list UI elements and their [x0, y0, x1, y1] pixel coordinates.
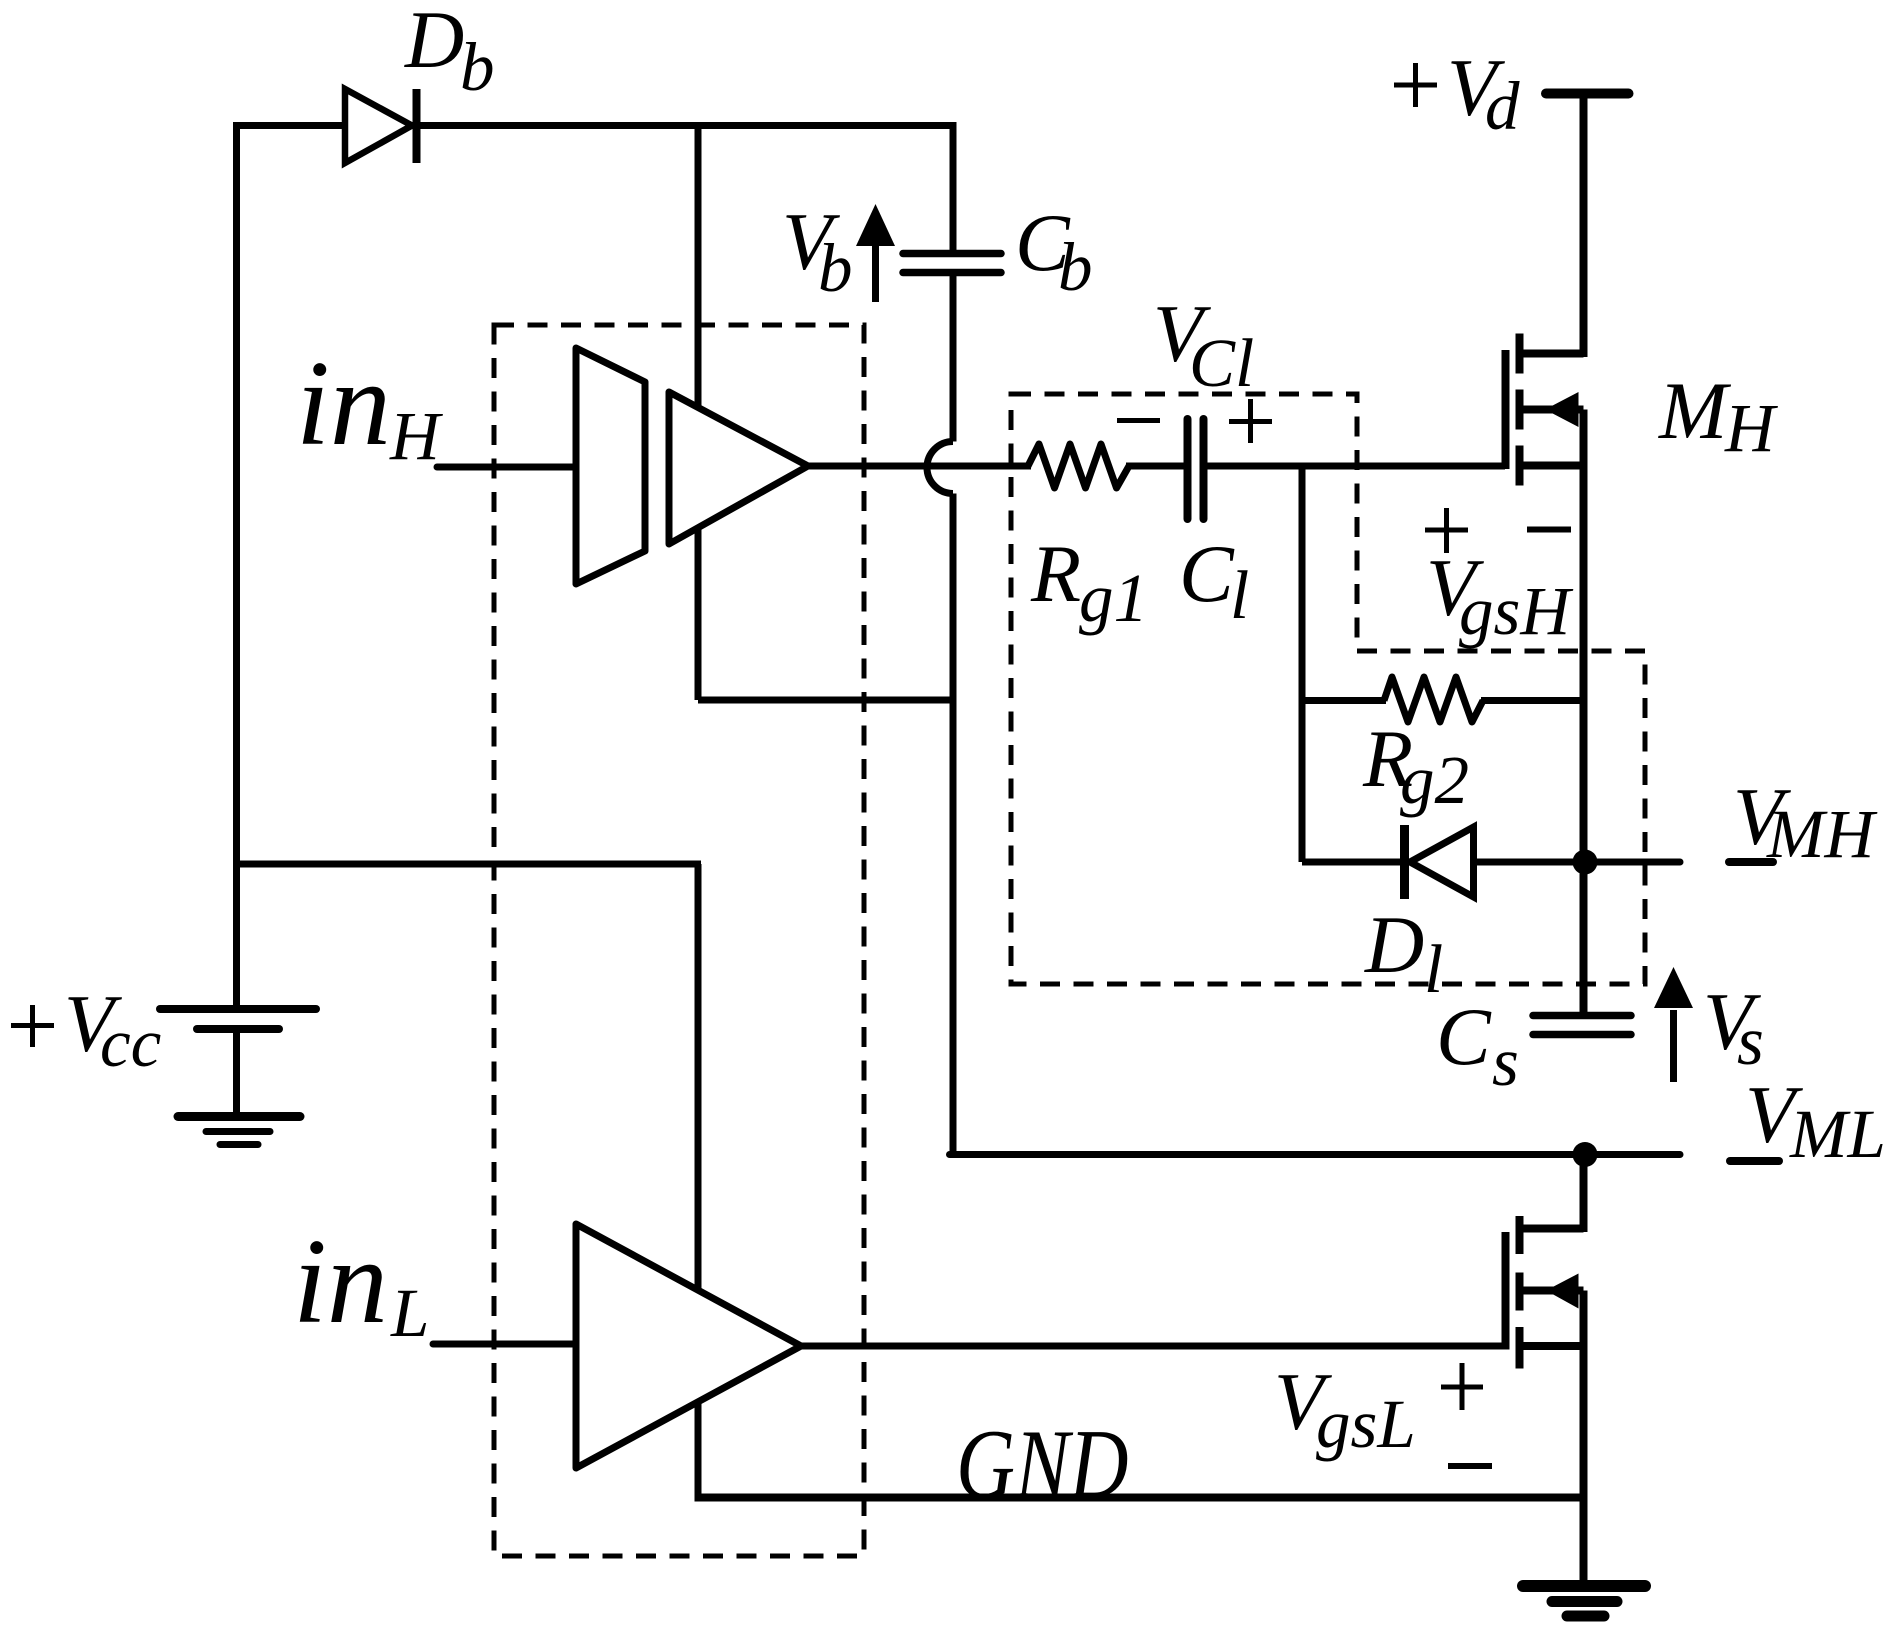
- wire: upper driver output to Rg1: [808, 463, 1031, 470]
- svg-text:b: b: [1058, 229, 1093, 305]
- MH body arrow: [1545, 392, 1579, 427]
- wire: gate node vertical down to Dl: [1299, 466, 1306, 862]
- node VMH junction dot: [1573, 850, 1598, 875]
- ground (ML source): [1523, 1586, 1645, 1616]
- ML body arrow: [1546, 1274, 1579, 1309]
- wire: inL input stub: [433, 1341, 576, 1348]
- svg-text:b: b: [818, 230, 853, 306]
- wire: lower driver output to ML gate: [801, 1343, 1505, 1350]
- wire: Rg1 to Cl: [1126, 463, 1184, 470]
- arrow Vb: [856, 204, 895, 302]
- buffer U2 triangle (lower driver): [576, 1224, 801, 1468]
- svg-text:Cl: Cl: [1189, 325, 1254, 401]
- ML body lead: [1517, 1287, 1584, 1295]
- svg-text:d: d: [1485, 68, 1520, 144]
- wire: hop arc over driver output: [927, 442, 953, 494]
- MH gate bar: [1502, 350, 1510, 469]
- svg-text:R: R: [1030, 528, 1081, 619]
- MH source lead: [1517, 462, 1584, 470]
- capacitor Cs: [1533, 1016, 1631, 1035]
- plus sign of VgsL: [1441, 1363, 1483, 1410]
- MH source vertical down to Cs: [1580, 410, 1588, 1016]
- svg-text:s: s: [1737, 1003, 1764, 1079]
- dashed box: driver IC: [494, 325, 864, 1556]
- ML gate bar: [1502, 1232, 1510, 1350]
- plus sign of +Vd: [1394, 63, 1437, 107]
- resistor Rg2: [1384, 677, 1483, 722]
- diode Db: [345, 89, 417, 163]
- svg-text:H: H: [389, 398, 443, 474]
- node VML junction dot: [1573, 1142, 1598, 1167]
- wire: input inH stub: [437, 464, 574, 471]
- wire: Cb bottom vertical to hop: [950, 276, 957, 442]
- wire: top horizontal from Vcc rail through Db to Cb corner: [233, 122, 956, 129]
- plus sign of +Vcc: [11, 1005, 54, 1047]
- wire: Vcc feed vertical to lower buffer and GND corner (x=698): [695, 864, 702, 1498]
- wire: VML horizontal to node and stub: [950, 1151, 1681, 1158]
- svg-text:l: l: [1230, 557, 1249, 633]
- supply bar +Vd: [1546, 89, 1629, 99]
- ML drain vertical from VML node: [1580, 1155, 1588, 1233]
- svg-text:in: in: [296, 336, 391, 471]
- wire: left Vcc rail vertical: [233, 122, 240, 1009]
- minus sign of VgsH: [1527, 527, 1571, 533]
- svg-text:D: D: [1364, 899, 1424, 990]
- svg-text:b: b: [460, 29, 495, 105]
- svg-text:s: s: [1492, 1024, 1519, 1100]
- svg-text:MH: MH: [1766, 796, 1877, 872]
- svg-text:GND: GND: [956, 1409, 1128, 1519]
- wire: upper driver bottom rail: [698, 697, 953, 704]
- ground (battery): [178, 1117, 300, 1145]
- wire: vertical from hop down to VML corner: [950, 494, 957, 1159]
- wire: GND rail horizontal: [695, 1494, 1584, 1502]
- dashed box: level-shift network (step outline): [1011, 394, 1645, 984]
- ML source lead: [1517, 1342, 1584, 1350]
- transistor MH: [1506, 94, 1584, 1016]
- wire: mid horizontal Vcc to lower driver: [233, 861, 701, 868]
- svg-text:L: L: [390, 1275, 429, 1351]
- svg-text:C: C: [1436, 991, 1492, 1082]
- wire: bootstrap rail vertical through upper buffer (x=698): [695, 126, 702, 701]
- wire: Rg2 left lead: [1302, 697, 1386, 704]
- wire: Cl to MH gate: [1206, 463, 1505, 470]
- MH channel bar segments: [1516, 334, 1524, 374]
- resistor Rg1: [1028, 444, 1129, 488]
- MH body lead: [1517, 406, 1584, 414]
- svg-text:cc: cc: [100, 1005, 161, 1081]
- svg-text:M: M: [1658, 365, 1732, 456]
- buffer U1 second stage (triangle): [669, 392, 808, 544]
- svg-text:D: D: [404, 0, 464, 85]
- wire: Dl anode horizontal to VMH node: [1302, 859, 1585, 866]
- wire: Rg2 right lead: [1481, 697, 1584, 704]
- plus sign of VgsH: [1425, 508, 1468, 553]
- transistor ML: [1506, 1155, 1584, 1583]
- capacitor Cl: [1188, 419, 1204, 519]
- wire: Vcc battery to ground: [233, 1033, 240, 1112]
- svg-text:gsH: gsH: [1459, 573, 1573, 649]
- plus sign of VCl: [1229, 399, 1272, 443]
- buffer U1 first stage (trapezoid): [576, 348, 645, 584]
- svg-text:ML: ML: [1789, 1096, 1886, 1172]
- MH drain vertical to +Vd: [1580, 94, 1588, 357]
- minus sign of VgsL: [1448, 1463, 1492, 1469]
- capacitor Cb: [903, 254, 1001, 273]
- svg-text:g2: g2: [1400, 742, 1469, 818]
- arrow Vs: [1654, 967, 1693, 1082]
- ML drain lead: [1517, 1225, 1584, 1233]
- diode Dl: [1405, 825, 1474, 899]
- battery Vcc plates: [160, 1009, 316, 1029]
- svg-text:g1: g1: [1079, 560, 1148, 636]
- ML source vertical to ground: [1580, 1291, 1588, 1583]
- svg-text:C: C: [1179, 528, 1235, 619]
- wire: VMH stub: [1585, 859, 1680, 866]
- wire: Cb top vertical from top rail corner: [950, 122, 957, 250]
- svg-text:gsL: gsL: [1316, 1386, 1416, 1462]
- MH drain lead: [1517, 350, 1584, 358]
- svg-text:in: in: [293, 1214, 388, 1349]
- svg-text:H: H: [1724, 390, 1778, 466]
- minus sign of VCl: [1117, 418, 1160, 423]
- ML channel bar segments: [1516, 1216, 1524, 1254]
